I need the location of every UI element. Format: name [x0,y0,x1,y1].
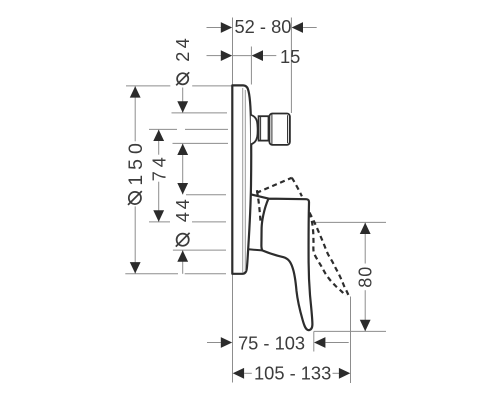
extension line H8 plate bottom [125,273,178,275]
arrow 75-103 left [221,337,232,348]
escutcheon plate outline [232,85,251,273]
extension line V6 dashed lever tip [350,297,352,384]
dimension 105-133 leader lines [244,372,252,374]
knob stem [259,116,270,140]
plate inner rim lines [242,88,244,273]
knob base dome [251,115,258,145]
arrow dia44 bottom [177,250,188,261]
dimension line D5 74 [158,130,160,155]
extension line H7 hub bottom [173,249,226,251]
dimension line D3 diameter 150 [134,86,136,141]
arrow 15 right [252,50,263,61]
lever hub bottom edge [249,249,263,250]
arrow 80 top [360,223,371,234]
arrow 74 top [153,130,164,141]
svg-text:24: 24 [173,35,193,62]
dimension line D4 diameter 24 / 44 column [182,88,184,113]
svg-text:74: 74 [149,153,169,181]
arrow 75-103 right [314,337,325,348]
dimension 15 leader lines [207,55,221,57]
extension line H4 knob bottom [173,142,229,144]
arrow dia24 top [177,101,188,112]
dimension 75-103 leader lines [207,342,221,344]
dimension line D6 80 [364,223,366,264]
extension line H3 knob centre [149,128,177,130]
svg-text:80: 80 [356,266,376,288]
extension line V3 knob tip [290,18,292,114]
svg-text:15: 15 [280,46,300,67]
knob cap back highlight line [271,114,273,144]
svg-text:105 - 133: 105 - 133 [254,363,331,384]
svg-text:75 - 103: 75 - 103 [238,333,305,354]
wall extension line V1 top [232,18,234,86]
arrow dia150 bottom [130,262,141,273]
extension line H1 plate top [126,85,170,87]
arrow dia150 top [130,86,141,97]
extension line H9 lever tip level [314,330,386,332]
dashed raised lever top edge [256,178,291,193]
svg-text:52 - 80: 52 - 80 [235,16,292,37]
extension line H6 lever pivot level [149,221,170,223]
extension line V5 lever tip [313,331,315,351]
dashed raised lever outer curve [292,178,302,197]
wall extension line V4 bottom [232,274,234,383]
dashed hidden lever edge in hub [257,190,261,224]
svg-text:44: 44 [173,196,193,222]
extension line H5 handle hub top [186,194,226,196]
extension line H2 knob top [172,112,228,114]
arrow dia44 top [177,183,188,194]
knob stem front edge [267,116,269,140]
arrow 80 bottom [360,320,371,331]
arrow 52-80 right [292,22,303,33]
extension line V2 plate face [250,47,252,85]
solid lever handle outline [251,194,313,330]
svg-text:150: 150 [125,138,147,186]
arrow 74 bottom [153,210,164,221]
arrow 52-80 left [221,22,232,33]
knob cap [269,114,290,145]
dashed raised lever inner curve [309,213,346,296]
knob cap face line [287,115,289,143]
arrow 105-133 right [339,368,350,379]
arrow dia24 bottom [177,144,188,155]
arrow 105-133 left [233,368,244,379]
dimension 52-80 leader lines [207,27,221,29]
arrow 15 left [221,50,232,61]
knob stem back highlight line [260,116,262,140]
